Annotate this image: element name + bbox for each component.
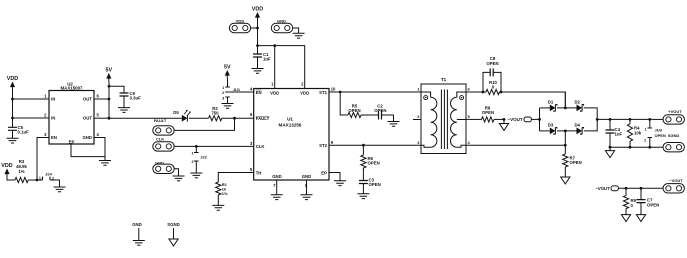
svg-text:4: 4 — [250, 87, 253, 92]
node R9 top — [625, 187, 628, 190]
svg-text:D2: D2 — [574, 99, 580, 104]
wire U1 ST1 pin 10 to transformer pin 1 — [329, 91, 421, 93]
power flag VDD (left input) — [7, 76, 18, 90]
svg-text:GND: GND — [302, 174, 312, 179]
node VDD feed split — [256, 44, 259, 47]
svg-text:OPEN: OPEN — [570, 160, 582, 165]
capacitor C6 3.3uF — [120, 91, 142, 108]
power flag VDD (EN pull-up) — [1, 163, 12, 177]
svg-text:OPEN: OPEN — [486, 61, 498, 66]
svg-text:−VOUT: −VOUT — [595, 186, 610, 191]
svg-text:−VOUT: −VOUT — [669, 178, 683, 183]
node JU3 top — [648, 118, 651, 121]
T1 primary winding — [421, 92, 431, 97]
wire T1 pin 5 to R8 — [466, 118, 482, 120]
svg-text:OPEN: OPEN — [368, 161, 380, 166]
svg-text:10k: 10k — [634, 130, 642, 135]
wire D4 to +VOUT node — [584, 119, 598, 130]
wire VDD down left rail — [12, 90, 14, 127]
power flag 5V (JU1) — [224, 65, 231, 79]
node C8 right — [500, 91, 503, 94]
node CLK/J22 — [195, 145, 198, 148]
node C7 top — [640, 187, 643, 190]
svg-text:0: 0 — [492, 84, 495, 89]
svg-text:FAULT: FAULT — [256, 116, 270, 121]
op-amp U1 MAX13256 H-bridge driver body — [250, 81, 336, 188]
ground under C3 — [357, 194, 369, 199]
wire FAULT TP to node — [174, 118, 234, 130]
U1 pin 3 number label — [250, 141, 253, 146]
svg-text:SGND: SGND — [668, 133, 680, 138]
ground under R1 — [212, 205, 224, 210]
node JU3 bottom — [648, 146, 651, 149]
node R4 top — [629, 118, 632, 121]
ground under U1 EP — [334, 181, 346, 186]
svg-text:5: 5 — [97, 113, 100, 118]
svg-text:3: 3 — [222, 97, 224, 101]
svg-text:7: 7 — [273, 183, 276, 188]
svg-text:MAX15007: MAX15007 — [61, 86, 84, 91]
jumper J22 — [191, 146, 207, 173]
svg-text:4: 4 — [97, 132, 100, 137]
svg-text:OPEN: OPEN — [647, 202, 659, 207]
legend GND symbol — [132, 222, 145, 245]
svg-text:3: 3 — [250, 141, 253, 146]
capacitor C8 OPEN bypass loop — [483, 56, 501, 92]
op-amp U2 MAX15007 LDO regulator body — [44, 81, 99, 144]
svg-text:MAX13256: MAX13256 — [279, 122, 302, 127]
signal ground under C7 — [636, 215, 645, 222]
svg-text:J22: J22 — [200, 154, 207, 159]
ground under GND TP — [173, 176, 185, 181]
svg-text:10: 10 — [331, 87, 336, 92]
svg-text:5V: 5V — [106, 68, 113, 74]
resistor R10 0 — [486, 80, 499, 95]
svg-text:VDD: VDD — [7, 76, 18, 82]
T1 secondary winding — [457, 92, 466, 97]
wire VDD to R3 — [7, 177, 15, 180]
svg-text:OPEN: OPEN — [374, 108, 386, 113]
power flag VDD (top center) — [252, 7, 263, 21]
resistor R3 49.9k 1% — [15, 159, 28, 183]
svg-text:VDD: VDD — [300, 91, 309, 96]
node C4 bottom — [609, 146, 612, 149]
svg-text:1uF: 1uF — [263, 56, 271, 61]
U1 pin 4 number label — [250, 87, 253, 92]
wire bottom branch left — [540, 130, 550, 132]
wire top branch left — [540, 107, 550, 109]
wire T1 pin 6 rail — [466, 91, 486, 93]
svg-text:JU1: JU1 — [233, 87, 241, 92]
node ST2 snubber — [362, 144, 365, 147]
svg-text:VDD: VDD — [236, 19, 245, 24]
svg-text:2: 2 — [301, 81, 304, 86]
node C4 top — [609, 118, 612, 121]
net label -VOUT (center tap) — [508, 117, 532, 122]
svg-text:OPEN: OPEN — [348, 108, 360, 113]
wire R3 to node — [28, 179, 42, 181]
capacitor C1 1uF — [253, 46, 271, 69]
legend SGND symbol — [167, 222, 179, 246]
node C8 left — [482, 91, 485, 94]
svg-text:U1: U1 — [287, 117, 293, 122]
resistor R8 OPEN — [482, 105, 495, 122]
svg-text:T1: T1 — [441, 77, 447, 82]
wire U1 GND pin 7 to ground — [276, 180, 278, 195]
node top branch center — [564, 107, 567, 110]
diode D4 — [574, 122, 583, 134]
svg-text:IN: IN — [51, 97, 55, 102]
ground under C2 — [388, 122, 400, 127]
wire VDD TP to rail — [251, 27, 258, 29]
capacitor C2 OPEN — [374, 104, 386, 120]
svg-text:OPEN: OPEN — [655, 133, 666, 138]
test point SGND — [663, 133, 684, 152]
svg-text:CLK: CLK — [256, 144, 266, 149]
T1 secondary phase dot — [460, 96, 464, 100]
ground under J22 — [190, 173, 202, 178]
svg-text:1: 1 — [191, 152, 193, 156]
wire J24 pin 2 to ground — [50, 180, 60, 187]
svg-text:2: 2 — [191, 160, 193, 164]
wire CLK TP to U1 CLK pin 3 — [174, 145, 254, 147]
svg-text:D1: D1 — [548, 99, 554, 104]
svg-text:1: 1 — [271, 81, 274, 86]
wire D2 to +VOUT node — [584, 108, 598, 120]
svg-text:GND: GND — [272, 174, 282, 179]
resistor R6 OPEN — [361, 145, 380, 180]
svg-text:EN: EN — [256, 90, 262, 95]
node VDD/IN1 — [11, 98, 14, 101]
wire JU1 pin 2 to U1 EN pin 4 — [230, 91, 254, 93]
capacitor C3 OPEN — [359, 178, 381, 194]
svg-text:+VOUT: +VOUT — [668, 109, 682, 114]
wire D3 to D4 — [557, 130, 577, 132]
svg-text:OPEN: OPEN — [369, 182, 381, 187]
wire R8 to SGND node — [494, 118, 504, 120]
svg-text:1: 1 — [645, 127, 647, 131]
svg-text:0: 0 — [631, 203, 634, 208]
test point CLK — [153, 137, 174, 151]
resistor R2 750 — [209, 106, 222, 121]
svg-text:2: 2 — [417, 114, 420, 119]
test point GND (left) — [153, 161, 174, 174]
svg-text:JU3: JU3 — [655, 128, 663, 133]
svg-text:EN: EN — [51, 135, 57, 140]
wire D5 to R2 — [189, 117, 209, 119]
svg-text:−VOUT: −VOUT — [508, 117, 523, 122]
svg-text:OPEN: OPEN — [482, 110, 494, 115]
ground under C6 — [118, 108, 130, 113]
wire U2 GND pin 4 to ground — [94, 138, 105, 161]
resistor R1 1k 1% — [216, 182, 228, 205]
jumper J24 — [39, 171, 54, 180]
signal ground under R8 node — [499, 119, 508, 130]
svg-text:6: 6 — [250, 112, 253, 117]
svg-text:GND: GND — [132, 222, 142, 227]
svg-text:GND: GND — [82, 135, 92, 140]
svg-text:CLK: CLK — [156, 137, 164, 142]
svg-text:1: 1 — [44, 94, 47, 99]
wire 5V to C6 — [109, 86, 124, 93]
wire to U2 pin 2 IN — [13, 117, 50, 119]
wire VDD top rail down — [257, 21, 259, 46]
resistor R7 OPEN — [563, 145, 582, 177]
svg-text:VDD: VDD — [252, 7, 263, 13]
wire D1 to D2 — [557, 107, 577, 109]
wire U1 EP to ground — [329, 173, 340, 181]
svg-text:2: 2 — [644, 139, 646, 143]
svg-text:1: 1 — [417, 87, 420, 92]
node pin4/R7 — [564, 144, 567, 147]
node R4 bottom — [629, 146, 632, 149]
ground under C5 — [7, 138, 19, 143]
node pin1 feed — [273, 44, 276, 47]
svg-text:OUT: OUT — [83, 116, 92, 121]
ground under C1 — [252, 69, 264, 74]
wire U1 GND pin 8 to ground — [306, 180, 308, 195]
signal ground under R7 — [561, 177, 570, 184]
diode D3 — [548, 122, 557, 134]
capacitor C4 1uF — [606, 119, 623, 147]
wire SGND bus — [610, 146, 663, 148]
wire 5V to JU1 pin 1 — [227, 79, 229, 88]
wire +VOUT rail — [597, 118, 652, 120]
wire R5 to C2 — [361, 114, 379, 116]
wire bridge top tap — [564, 92, 566, 108]
transformer T1 — [413, 77, 471, 154]
wire U2 OUT pin 6 to 5V rail — [94, 98, 109, 100]
svg-text:3.3uF: 3.3uF — [130, 96, 142, 101]
wire snubber drop — [340, 92, 348, 115]
svg-text:VDD: VDD — [1, 163, 12, 169]
wire T1 pin 4 to bridge bottom tap — [466, 131, 565, 145]
T1 core — [441, 90, 447, 150]
test point FAULT — [153, 118, 174, 135]
signal ground on SGND bus — [605, 147, 614, 157]
wire VDD to U1 VDD pins 1 and 2 — [258, 46, 305, 89]
svg-text:750: 750 — [211, 111, 219, 116]
wire flag to diode bridge — [531, 118, 539, 120]
wire U1 TH pin 5 to R1 — [218, 173, 253, 183]
ground under J24 — [54, 187, 66, 192]
test point VDD (top) — [229, 19, 250, 33]
ground under U1 pin 7 — [271, 195, 283, 200]
node VDD/TP — [256, 27, 259, 30]
node bridge left — [538, 118, 541, 121]
svg-text:6: 6 — [97, 94, 100, 99]
ground under U2 GND/EP — [99, 161, 111, 166]
svg-text:OUT: OUT — [83, 97, 92, 102]
svg-text:2: 2 — [222, 91, 224, 95]
signal ground under R9 — [621, 215, 630, 222]
svg-text:3: 3 — [417, 140, 420, 145]
wire R10 to diode column — [500, 92, 566, 108]
U1 pin 6 number label — [250, 112, 253, 117]
svg-text:VDD: VDD — [270, 91, 279, 96]
svg-text:1: 1 — [39, 176, 41, 180]
svg-text:D4: D4 — [574, 122, 580, 127]
wire U2 EP to ground — [71, 144, 105, 157]
svg-text:ST2: ST2 — [319, 143, 327, 148]
capacitor C7 OPEN — [637, 188, 660, 214]
node R8/SGND — [503, 118, 506, 121]
wire GND TP to ground — [293, 28, 299, 33]
node 5V/OUT6 — [108, 98, 111, 101]
LED D5 — [173, 110, 191, 122]
wire to U2 pin 1 IN — [13, 98, 50, 100]
svg-text:GND: GND — [277, 19, 286, 24]
T1 primary phase dot — [424, 96, 428, 100]
node +VOUT junction — [596, 118, 599, 121]
test point -VOUT — [663, 178, 684, 193]
svg-text:1uF: 1uF — [615, 132, 623, 137]
wire diode bridge left vertical — [539, 108, 541, 131]
jumper JU3 OPEN — [644, 119, 666, 147]
svg-text:ST1: ST1 — [319, 90, 327, 95]
node EN/R3/J24 — [36, 179, 39, 182]
wire GND TP to ground — [174, 169, 178, 176]
resistor R5 OPEN — [348, 104, 361, 118]
node 5V/C6 — [108, 85, 111, 88]
svg-text:EP: EP — [321, 170, 327, 175]
svg-text:4: 4 — [468, 140, 471, 145]
svg-text:2: 2 — [44, 113, 47, 118]
ground under top GND TP — [293, 33, 305, 38]
node VDD/IN2 — [11, 117, 14, 120]
svg-text:3: 3 — [44, 132, 47, 137]
svg-text:1: 1 — [222, 86, 224, 90]
wire U1 ST2 pin 9 to transformer pin 3 — [329, 144, 421, 146]
resistor R9 0 — [623, 188, 636, 214]
svg-text:5: 5 — [468, 114, 471, 119]
test point GND (top) — [271, 19, 292, 33]
svg-text:D3: D3 — [548, 122, 554, 127]
ground under U1 pin 8 — [301, 195, 313, 200]
svg-text:0.1uF: 0.1uF — [18, 129, 30, 134]
diode D1 — [548, 99, 557, 111]
svg-text:1%: 1% — [18, 169, 24, 174]
wire 5V vertical rail — [108, 82, 110, 119]
svg-text:EP: EP — [69, 140, 75, 145]
svg-text:TH: TH — [256, 170, 262, 175]
wire 5V rail to LED D5 — [109, 117, 182, 119]
wire C2 to ground — [382, 115, 394, 122]
svg-text:GND: GND — [155, 161, 164, 166]
svg-text:D5: D5 — [173, 110, 179, 115]
T1 pin 2 stub — [413, 119, 421, 121]
net label -VOUT (output) — [595, 186, 618, 191]
svg-text:1%: 1% — [222, 191, 228, 196]
svg-text:6: 6 — [468, 87, 471, 92]
wire U2 EN pin 3 to R3/J24 node — [37, 138, 49, 181]
test point +VOUT — [653, 109, 685, 124]
svg-text:FAULT: FAULT — [154, 118, 167, 123]
svg-text:IN: IN — [51, 116, 55, 121]
resistor R4 10k — [627, 119, 641, 147]
diode D2 — [574, 99, 583, 111]
jumper JU1 3-pin — [222, 86, 241, 104]
power flag 5V (regulator output) — [106, 68, 113, 82]
wire R2 to U1 FAULT pin 6 — [222, 117, 254, 119]
node ST1 snubber — [339, 91, 342, 94]
svg-text:5: 5 — [250, 167, 253, 172]
wire U2 OUT pin 5 to 5V rail — [94, 117, 109, 119]
ground under JU1 — [222, 104, 234, 109]
svg-text:5V: 5V — [224, 65, 231, 71]
node FAULT/TP — [233, 117, 236, 120]
node 5V/OUT5 — [108, 117, 111, 120]
svg-text:SGND: SGND — [167, 222, 179, 227]
svg-text:9: 9 — [331, 140, 334, 145]
capacitor C5 0.1uF — [8, 125, 29, 138]
node bottom branch center — [564, 130, 567, 133]
wire -VOUT rail — [618, 187, 663, 189]
